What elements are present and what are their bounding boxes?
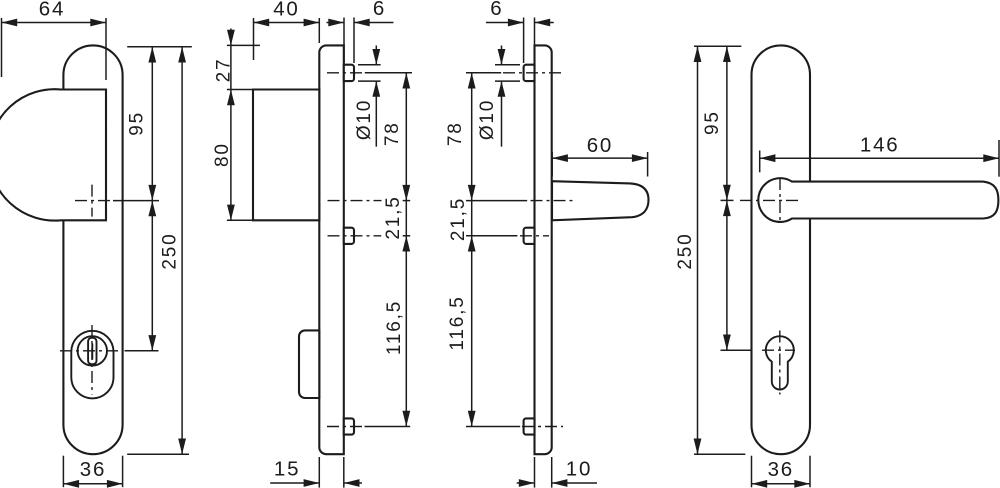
dim 27 arrow shaft bbox=[230, 29, 232, 46]
view4 cyl crosshair h bbox=[762, 349, 795, 351]
svg-text:60: 60 bbox=[587, 134, 613, 157]
svg-text:116,5: 116,5 bbox=[384, 300, 405, 355]
dim 36 view4 ext left bbox=[751, 456, 753, 488]
dim d10 view2 shaft top bbox=[375, 46, 377, 65]
svg-text:95: 95 bbox=[127, 111, 148, 136]
svg-text:80: 80 bbox=[212, 142, 233, 167]
view1 keyway inner line bbox=[91, 344, 93, 360]
dim d10 view2 tick top bbox=[358, 64, 381, 66]
svg-text:10: 10 bbox=[566, 458, 592, 481]
dim 60 ext left bbox=[551, 152, 553, 177]
dim 40 line bbox=[254, 22, 320, 24]
dim 6 view3 line left bbox=[486, 22, 524, 24]
dim 10 ext right bbox=[551, 457, 553, 488]
dim d10 view3 shaft bottom bbox=[501, 81, 503, 147]
view2 spindle centerline bbox=[328, 200, 382, 202]
dim 36 view4 ext right bbox=[809, 456, 811, 488]
svg-text:6: 6 bbox=[373, 0, 386, 20]
view2 top screw collar bbox=[344, 65, 354, 81]
view3 top screw collar bbox=[524, 65, 535, 81]
view4 cyl crosshair v bbox=[779, 331, 781, 395]
dim 146 ext right bbox=[998, 140, 1000, 177]
dim 80 line bbox=[230, 90, 232, 221]
dim 36 view1 ext left bbox=[62, 456, 64, 488]
svg-text:36: 36 bbox=[768, 458, 794, 481]
svg-text:146: 146 bbox=[860, 134, 900, 157]
view2 bottom screw centerline bbox=[327, 426, 363, 428]
dim 95 view4 line bbox=[726, 46, 728, 200]
dim 80 ext bottom bbox=[227, 219, 254, 221]
dim 64 ext left bbox=[1, 18, 3, 77]
segment spindle-cyl view4 bbox=[726, 200, 728, 350]
view1 cylinder circle bbox=[78, 336, 107, 365]
dim 6 view3 line right bbox=[535, 22, 554, 24]
dim 21,5 view2 line bbox=[405, 201, 407, 236]
svg-text:36: 36 bbox=[80, 458, 106, 481]
dim d10 view3 shaft top bbox=[501, 46, 503, 65]
dim 60 line bbox=[552, 157, 647, 159]
dim 6 view2 ext right bbox=[353, 18, 355, 64]
view4 euro profile hole bbox=[766, 336, 794, 389]
dim 36 view4 line bbox=[752, 483, 811, 485]
dim 10 ext left bbox=[534, 457, 536, 488]
dim 6 view2 line left bbox=[327, 22, 345, 24]
view1 cyl centerline v bbox=[91, 325, 93, 395]
svg-text:21,5: 21,5 bbox=[448, 197, 469, 241]
dim 40 ext left bbox=[253, 18, 255, 60]
dim 15 ext left bbox=[318, 457, 320, 488]
svg-text:21,5: 21,5 bbox=[383, 195, 404, 239]
view1 plate bottom ext bbox=[127, 453, 189, 455]
dim 64 line bbox=[2, 22, 107, 24]
view2 top screw centerline bbox=[327, 72, 362, 74]
svg-text:40: 40 bbox=[273, 0, 299, 21]
dim 116,5 view3 line bbox=[471, 236, 473, 427]
dim 78 view2 line bbox=[405, 73, 407, 201]
view3 bottom screw centerline bbox=[522, 426, 563, 428]
dim 146 line bbox=[760, 157, 999, 159]
view3 side plate bbox=[535, 45, 552, 454]
dim d10 view3 tick bottom bbox=[495, 80, 520, 82]
view2 middle pin collar bbox=[344, 228, 354, 244]
view2 spindle tick bbox=[403, 200, 411, 202]
segment knob-cyl view1 bbox=[151, 201, 153, 351]
dim 6 view3 ext right bbox=[534, 18, 536, 64]
view3 top screw centerline bbox=[503, 72, 563, 74]
dim 27 ext bottom bbox=[227, 89, 254, 91]
view1 knob centerline h bbox=[75, 200, 111, 202]
view3 pin ext bbox=[466, 235, 517, 237]
svg-text:78: 78 bbox=[382, 121, 403, 146]
dim 116,5 view2 line bbox=[405, 236, 407, 427]
view3 spindle ext bbox=[466, 200, 527, 202]
svg-text:64: 64 bbox=[39, 0, 65, 20]
svg-text:95: 95 bbox=[702, 110, 723, 135]
svg-text:6: 6 bbox=[490, 0, 503, 20]
dim 15 line left bbox=[270, 482, 319, 484]
view3 pin centerline bbox=[520, 235, 549, 237]
svg-text:Ø10: Ø10 bbox=[354, 99, 375, 140]
view2 cylinder housing bbox=[299, 330, 319, 398]
dim 64 ext right bbox=[105, 18, 107, 80]
view1 plate top ext bbox=[127, 46, 192, 48]
dim 95 line view1 bbox=[151, 47, 153, 201]
view4 spindle tick bbox=[721, 199, 734, 201]
view2 knob block bbox=[253, 90, 319, 221]
view1 knob bbox=[0, 89, 106, 220]
view4 lever handle bbox=[758, 178, 998, 222]
dim 36 view1 line bbox=[63, 483, 122, 485]
dim 15 line right bbox=[344, 482, 362, 484]
dim 6 view2 line right bbox=[354, 22, 394, 24]
view2 pin tick bbox=[403, 235, 411, 237]
dim 10 line left bbox=[517, 482, 535, 484]
view1 cyl centerline h bbox=[60, 350, 122, 352]
dim 36 view1 ext right bbox=[122, 456, 124, 488]
view1 keyway slot bbox=[88, 338, 96, 364]
svg-text:250: 250 bbox=[675, 232, 696, 269]
view2 side plate bbox=[319, 45, 344, 454]
view1 cylinder oval bbox=[71, 331, 113, 399]
view3 bottom screw collar bbox=[524, 418, 535, 434]
svg-text:27: 27 bbox=[213, 58, 234, 83]
dim 6 view3 ext left bbox=[523, 18, 525, 64]
view4 plate top ext bbox=[694, 45, 741, 47]
dim 15 ext right bbox=[343, 457, 345, 488]
dim 21,5 view3 line bbox=[471, 201, 473, 236]
svg-text:78: 78 bbox=[445, 121, 466, 146]
svg-text:Ø10: Ø10 bbox=[477, 99, 498, 140]
view2 top screw ext bbox=[365, 72, 412, 74]
view3 spindle centerline bbox=[531, 200, 575, 202]
view2 bottom screw collar bbox=[344, 418, 354, 434]
view4 interior plate (front) bbox=[752, 45, 811, 454]
dim 250 view4 line bbox=[697, 46, 699, 454]
view3 top screw ext bbox=[466, 72, 501, 74]
view4 cyl ext bbox=[721, 349, 752, 351]
dim 27 ext top bbox=[227, 44, 260, 46]
view2 bottom screw tick bbox=[365, 426, 411, 428]
dim 250 line view1 bbox=[181, 47, 183, 454]
dim 10 line right bbox=[552, 482, 597, 484]
dim 146 ext left bbox=[759, 151, 761, 173]
dim 40 ext right bbox=[318, 18, 320, 43]
dim 60 ext right bbox=[647, 152, 649, 177]
view3 middle pin collar bbox=[524, 228, 535, 244]
dim 6 view2 ext left bbox=[343, 18, 345, 64]
dim d10 view2 tick bottom bbox=[358, 80, 381, 82]
view3 lever grip (side) bbox=[552, 181, 649, 220]
view1 cyl center tick bbox=[125, 350, 159, 352]
view2 pin centerline bbox=[328, 235, 382, 237]
view4 spindle crosshair h bbox=[740, 199, 798, 201]
view1 exterior plate (front) bbox=[63, 45, 122, 454]
dim d10 view3 tick top bbox=[495, 64, 520, 66]
view3 bottom screw tick bbox=[466, 426, 520, 428]
dim d10 view2 shaft bottom bbox=[375, 81, 377, 147]
view1 knob centerline v bbox=[91, 185, 93, 217]
svg-text:250: 250 bbox=[160, 232, 181, 269]
dim 78 view3 line bbox=[471, 73, 473, 201]
view4 plate bottom ext bbox=[694, 453, 745, 455]
svg-text:116,5: 116,5 bbox=[447, 295, 468, 350]
view4 spindle crosshair v bbox=[779, 178, 781, 222]
dim 27-80 connector bbox=[230, 45, 232, 89]
view1 knob center tick1 bbox=[113, 200, 159, 202]
svg-text:15: 15 bbox=[274, 458, 300, 481]
